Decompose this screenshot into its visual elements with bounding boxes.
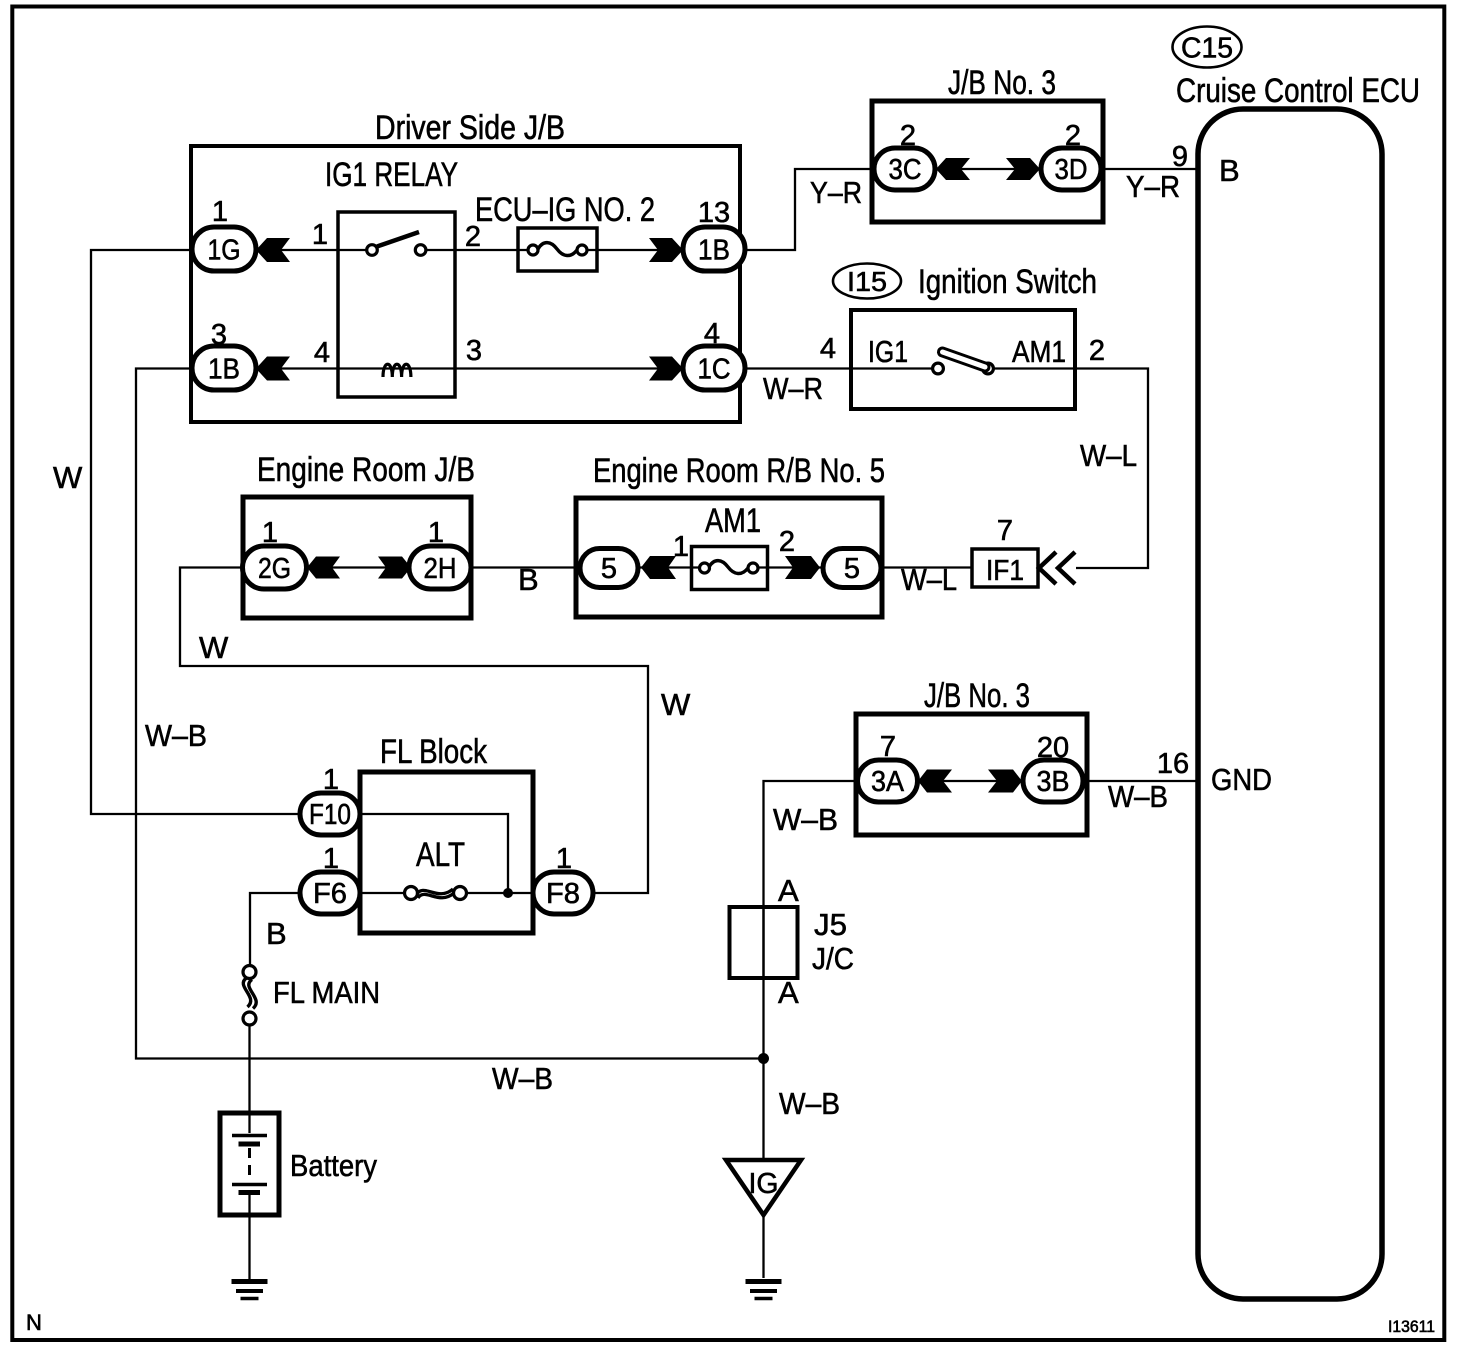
svg-text:4: 4 — [704, 318, 720, 350]
svg-text:B: B — [1219, 153, 1240, 188]
svg-text:IG1: IG1 — [868, 334, 908, 369]
svg-text:Engine Room J/B: Engine Room J/B — [257, 451, 475, 489]
svg-text:W–B: W–B — [773, 802, 838, 837]
svg-text:4: 4 — [820, 333, 836, 365]
svg-text:J/B No. 3: J/B No. 3 — [948, 64, 1056, 102]
svg-text:3D: 3D — [1055, 154, 1088, 186]
svg-text:I13611: I13611 — [1388, 1318, 1435, 1336]
svg-text:I15: I15 — [847, 266, 887, 297]
svg-text:1B: 1B — [208, 354, 240, 386]
svg-text:W: W — [661, 687, 691, 722]
svg-text:1: 1 — [312, 219, 328, 251]
svg-text:W–B: W–B — [779, 1086, 840, 1121]
svg-text:1: 1 — [673, 531, 689, 563]
svg-text:AM1: AM1 — [705, 502, 761, 540]
svg-text:FL MAIN: FL MAIN — [273, 975, 380, 1010]
svg-text:W–B: W–B — [145, 718, 207, 753]
svg-text:2H: 2H — [424, 553, 457, 585]
svg-text:2G: 2G — [258, 553, 291, 585]
svg-text:3A: 3A — [871, 766, 905, 798]
svg-text:5: 5 — [601, 553, 617, 585]
svg-text:B: B — [518, 562, 539, 597]
svg-text:1G: 1G — [208, 235, 241, 267]
svg-text:1: 1 — [428, 517, 444, 549]
svg-text:1: 1 — [556, 843, 572, 875]
svg-text:2: 2 — [900, 120, 916, 152]
svg-text:F10: F10 — [309, 799, 351, 831]
svg-text:20: 20 — [1037, 732, 1069, 764]
svg-text:2: 2 — [465, 221, 481, 253]
svg-text:2: 2 — [1089, 335, 1105, 367]
svg-text:W–B: W–B — [1108, 779, 1168, 814]
svg-text:1: 1 — [262, 517, 278, 549]
svg-text:1B: 1B — [698, 235, 730, 267]
svg-text:AM1: AM1 — [1012, 334, 1066, 369]
svg-text:W–B: W–B — [492, 1061, 553, 1096]
svg-text:1: 1 — [212, 196, 228, 228]
svg-text:A: A — [778, 873, 799, 908]
svg-text:A: A — [778, 975, 799, 1010]
svg-text:F6: F6 — [313, 878, 347, 910]
svg-text:Y–R: Y–R — [810, 175, 862, 210]
svg-text:2: 2 — [779, 526, 795, 558]
svg-text:7: 7 — [880, 731, 896, 763]
svg-text:FL Block: FL Block — [380, 733, 488, 771]
svg-text:ECU–IG NO. 2: ECU–IG NO. 2 — [475, 191, 655, 229]
svg-text:J/C: J/C — [812, 941, 854, 976]
svg-text:1C: 1C — [698, 354, 731, 386]
svg-text:N: N — [26, 1310, 42, 1335]
svg-text:F8: F8 — [546, 878, 580, 910]
svg-text:W: W — [199, 630, 229, 665]
svg-text:1: 1 — [323, 843, 339, 875]
svg-text:3: 3 — [466, 335, 482, 367]
svg-text:Battery: Battery — [290, 1148, 377, 1183]
svg-text:W–L: W–L — [901, 562, 957, 597]
svg-text:Y–R: Y–R — [1126, 169, 1180, 204]
svg-text:ALT: ALT — [416, 836, 465, 874]
svg-text:16: 16 — [1157, 748, 1189, 780]
svg-text:IG: IG — [749, 1168, 779, 1200]
svg-text:Ignition Switch: Ignition Switch — [918, 263, 1097, 301]
svg-text:C15: C15 — [1181, 33, 1233, 65]
svg-text:4: 4 — [314, 337, 330, 369]
svg-text:Cruise Control ECU: Cruise Control ECU — [1176, 72, 1420, 110]
svg-text:2: 2 — [1065, 120, 1081, 152]
svg-text:IF1: IF1 — [986, 555, 1024, 587]
svg-text:3B: 3B — [1037, 766, 1070, 798]
svg-text:1: 1 — [323, 764, 339, 796]
svg-text:W: W — [53, 460, 83, 495]
svg-text:GND: GND — [1211, 762, 1272, 797]
svg-text:3C: 3C — [889, 154, 922, 186]
svg-text:J/B No. 3: J/B No. 3 — [924, 677, 1030, 715]
svg-text:7: 7 — [997, 515, 1013, 547]
svg-text:Driver Side J/B: Driver Side J/B — [375, 109, 565, 147]
svg-text:3: 3 — [211, 319, 227, 351]
svg-text:W–R: W–R — [763, 371, 823, 406]
svg-text:Engine Room R/B No. 5: Engine Room R/B No. 5 — [593, 452, 885, 490]
svg-text:13: 13 — [698, 197, 730, 229]
svg-text:J5: J5 — [814, 907, 847, 942]
svg-text:W–L: W–L — [1080, 438, 1137, 473]
svg-text:5: 5 — [844, 553, 860, 585]
svg-text:B: B — [266, 916, 287, 951]
svg-text:IG1 RELAY: IG1 RELAY — [325, 156, 458, 194]
